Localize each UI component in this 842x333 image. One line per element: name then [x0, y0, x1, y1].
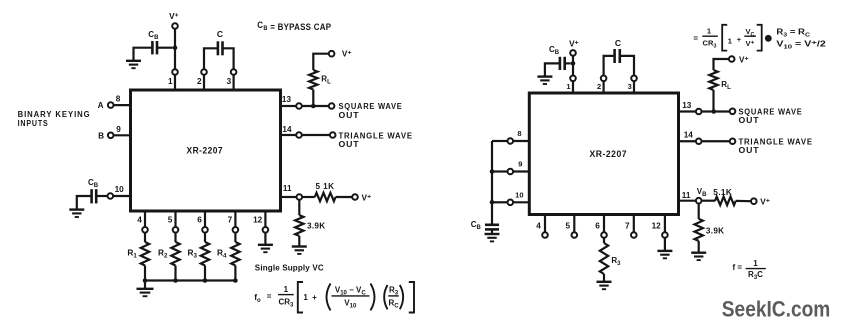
svg-text:V⁺: V⁺: [569, 40, 579, 49]
resistor R3 (right): [600, 243, 608, 274]
ground CB (left top): [126, 61, 141, 68]
pin 13 terminal (right): [696, 109, 702, 115]
svg-text:=: =: [267, 292, 272, 301]
wire R3 to bus: [204, 266, 206, 281]
svg-text:1: 1: [753, 259, 758, 268]
pin 6 terminal (left): [202, 227, 208, 233]
V+ terminal 5.1K (left): [352, 194, 358, 200]
wire pin11 to 3.9K (right): [698, 204, 700, 219]
wire pin1 to junction (left): [174, 48, 176, 70]
wire RL to pin13 (left): [312, 90, 314, 107]
wire RL to pin13 (right): [712, 90, 714, 112]
wire pin2 stub (left): [203, 75, 205, 90]
ground R3 (right): [597, 282, 612, 289]
svg-text:1: 1: [303, 293, 308, 302]
svg-text:1: 1: [707, 27, 711, 36]
svg-text:3.9K: 3.9K: [307, 222, 326, 231]
pin 14 terminal (right): [696, 138, 702, 144]
junction bus x205 (left): [203, 278, 208, 283]
svg-text:12: 12: [253, 215, 263, 224]
resistor R1: [141, 242, 149, 266]
V+ terminal top (left): [172, 23, 178, 29]
capacitor CB (left top): [152, 41, 157, 54]
svg-text:V⁺: V⁺: [362, 193, 372, 202]
junction CB/V+ (left): [173, 45, 178, 50]
wire pin8 (left): [114, 104, 131, 106]
square wave out terminal (right): [730, 109, 736, 115]
triangle wave out terminal (right): [730, 138, 736, 144]
svg-text:11: 11: [283, 184, 292, 193]
wire pin14 (right): [679, 140, 696, 142]
svg-text:V⁺: V⁺: [342, 50, 352, 59]
wire pin to R1 (left): [144, 233, 146, 242]
svg-text:+: +: [312, 293, 317, 302]
svg-text:10: 10: [115, 185, 125, 194]
svg-text:5.1K: 5.1K: [713, 188, 732, 197]
wire pin13 (right): [679, 110, 696, 112]
pin 7 terminal (left): [233, 227, 239, 233]
formula f = 1/R3C: [733, 259, 766, 281]
junction bus pin9 (right): [490, 169, 495, 174]
wire R1 to bus: [144, 266, 146, 281]
wire pin to R4 (left): [234, 233, 236, 242]
pin 9 terminal (right): [508, 169, 514, 175]
ground resistor bus (left): [137, 289, 154, 296]
wire junction to CB (left): [157, 47, 173, 49]
pin 4 terminal (right): [542, 232, 548, 238]
svg-text:14: 14: [282, 125, 292, 134]
svg-text:A: A: [98, 101, 104, 110]
svg-text:4: 4: [536, 221, 541, 230]
svg-text:INPUTS: INPUTS: [18, 118, 49, 128]
resistor RL (left): [309, 70, 317, 90]
svg-text:13: 13: [282, 95, 292, 104]
wire C to pin3 (right): [620, 56, 634, 76]
wire pin12 to ground (left): [264, 233, 266, 245]
svg-text:5: 5: [566, 221, 571, 230]
capacitor CB (left bottom): [92, 189, 97, 203]
wire pin1 to junction (right): [572, 63, 574, 75]
pin 11 terminal (left): [297, 194, 303, 200]
svg-text:14: 14: [684, 131, 694, 140]
junction bus x145 (left): [143, 278, 148, 283]
svg-text:+: +: [737, 35, 742, 44]
wire pin9 (left): [114, 134, 131, 136]
svg-text:9: 9: [116, 125, 121, 134]
pin 10 terminal (left): [108, 193, 114, 199]
wire junction to V+ (left): [174, 29, 176, 48]
ground 3.9K (right): [691, 253, 706, 260]
wire pin9 from bus (right): [492, 170, 508, 172]
wire pin9 (right): [513, 170, 529, 172]
wire pin7 stub (left): [234, 211, 236, 227]
wire pin13 (left): [281, 105, 297, 107]
svg-text:=: =: [693, 34, 698, 43]
svg-text:10: 10: [515, 190, 523, 199]
svg-text:11: 11: [682, 191, 691, 200]
pin 5 terminal (left): [173, 227, 179, 233]
ground pin12 (right): [657, 251, 672, 258]
wire 3.9K to ground (left): [298, 236, 300, 247]
wire pin6 stub (left): [204, 211, 206, 227]
wire pin10 (right): [513, 201, 529, 203]
resistor 5.1K (right): [715, 197, 736, 205]
wire keying bus (right): [491, 141, 493, 224]
svg-text:8: 8: [116, 95, 121, 104]
op-amp U1 XR-2207 (left IC body): [131, 90, 281, 211]
wire pin3 stub (right): [633, 81, 635, 93]
junction bus x175.5 (left): [173, 278, 178, 283]
V+ terminal top (right): [570, 50, 576, 56]
wire pin1 stub (right): [572, 81, 574, 93]
wire pin14 (left): [281, 134, 297, 136]
svg-text:OUT: OUT: [339, 110, 360, 120]
wire R3 to ground (right): [603, 274, 605, 282]
wire CB to ground (left bottom): [77, 196, 92, 210]
ground CB (left bottom): [69, 210, 84, 217]
wire pin5 stub (right): [573, 215, 575, 233]
wire pin4 stub (right): [544, 215, 546, 233]
svg-text:3: 3: [628, 82, 632, 91]
pin 11 terminal (right): [696, 198, 702, 204]
pin 14 terminal (left): [296, 132, 302, 138]
pin 3 terminal (left): [231, 69, 237, 75]
svg-text:5: 5: [168, 215, 173, 224]
svg-text:6: 6: [595, 221, 600, 230]
svg-text:8: 8: [517, 129, 521, 138]
pin 12 terminal (left): [263, 227, 269, 233]
svg-text:13: 13: [682, 101, 692, 110]
wire pin2 to C (right): [604, 56, 615, 76]
svg-text:V⁺: V⁺: [169, 12, 179, 21]
svg-text:f =: f =: [733, 263, 743, 272]
wire pin12 to ground (right): [664, 238, 666, 251]
wire pin to R3 (left): [204, 233, 206, 242]
wire pin1 stub (left): [174, 75, 176, 90]
capacitor CB (right top): [560, 57, 565, 70]
wire pin5 stub (left): [174, 211, 176, 227]
wire R4 to bus: [234, 266, 236, 281]
wire pin2 to C (left): [204, 48, 218, 69]
triangle wave out terminal (left): [330, 132, 336, 138]
svg-text:2: 2: [197, 77, 202, 86]
resistor R2: [171, 242, 179, 266]
svg-text:XR-2207: XR-2207: [187, 145, 224, 155]
svg-text:C: C: [615, 38, 621, 48]
svg-text:1: 1: [566, 82, 570, 91]
svg-text:OUT: OUT: [339, 139, 360, 149]
svg-text:B: B: [98, 131, 104, 140]
svg-text:Single Supply VC: Single Supply VC: [255, 263, 324, 272]
svg-text:OUT: OUT: [739, 145, 760, 155]
svg-text:1: 1: [284, 285, 289, 294]
formula = 1/CR3 [1 + VC/V+] @ R3=RC V10=V+/2: [693, 25, 826, 51]
ground pin12 (left): [258, 245, 273, 252]
wire pin10 from bus (right): [492, 201, 508, 203]
pin 2 terminal (left): [201, 69, 207, 75]
junction pin13/RL (right): [711, 109, 716, 114]
wire pin13 to out (right): [702, 110, 730, 112]
wire pin13 to out (left): [302, 105, 329, 107]
wire pin11 (right): [679, 200, 696, 202]
wire pin6 stub (right): [603, 215, 605, 233]
wire pin11 (left): [281, 196, 297, 198]
wire pin6 to R3 (right): [603, 238, 605, 243]
capacitor C (right): [615, 49, 620, 63]
svg-text:1: 1: [728, 37, 732, 46]
wire pin4 stub (left): [144, 211, 146, 227]
wire resistor bus (left): [145, 279, 235, 281]
wire pin14 to out (right): [702, 140, 730, 142]
svg-text:3: 3: [227, 77, 232, 86]
wire pin2 stub (right): [602, 81, 604, 93]
svg-text:3.9K: 3.9K: [706, 227, 725, 236]
svg-text:7: 7: [625, 221, 630, 230]
ground 3.9K (left): [292, 247, 307, 254]
V+ terminal RL (right): [729, 56, 735, 62]
wire pin12 stub (left): [264, 211, 266, 227]
wire pin8 from bus (right): [492, 140, 508, 142]
wire pin10 to CB (left): [96, 195, 107, 197]
square wave out terminal (left): [329, 103, 335, 109]
wire junction to CB (right): [565, 62, 571, 64]
wire pin7 stub (right): [633, 215, 635, 233]
svg-text:V⁺: V⁺: [739, 55, 749, 64]
junction bus x235.4 (left): [233, 278, 238, 283]
resistor 3.9K (left): [295, 215, 303, 236]
pin 13 terminal (left): [296, 103, 302, 109]
junction CB/V+ (right): [571, 61, 576, 66]
pin 1 terminal (right): [570, 76, 576, 82]
svg-text:C: C: [217, 29, 223, 39]
wire pin11 to 3.9K (left): [298, 200, 300, 215]
svg-text:4: 4: [137, 215, 142, 224]
capacitor C (left): [218, 41, 223, 55]
svg-text:12: 12: [652, 221, 662, 230]
svg-text:6: 6: [197, 215, 202, 224]
op-amp U2 XR-2207 (right IC body): [529, 93, 678, 215]
svg-text:CB = BYPASS CAP: CB = BYPASS CAP: [257, 20, 331, 32]
junction bus pin10 (right): [490, 200, 495, 205]
pin 8 terminal (left): [108, 102, 114, 108]
pin 1 terminal (left): [172, 69, 178, 75]
pin 2 terminal (right): [601, 76, 607, 82]
formula f0 = 1/CR3 [1 + ((V10-VC)/V10)(R3/RC)]: [254, 282, 414, 313]
pin 7 terminal (right): [631, 232, 637, 238]
svg-text:9: 9: [518, 160, 522, 169]
V+ terminal 5.1K (right): [751, 198, 757, 204]
junction pin13/RL (left): [311, 104, 316, 109]
capacitor CB (right bottom): [485, 225, 499, 230]
wire pin11 to 5.1K (right): [702, 200, 716, 202]
pin 12 terminal (right): [662, 232, 668, 238]
wire R2 to bus: [174, 266, 176, 281]
pin 3 terminal (right): [631, 76, 637, 82]
wire pin8 (right): [513, 140, 529, 142]
svg-text:7: 7: [228, 215, 233, 224]
wire junction to V+ (right): [572, 56, 574, 64]
svg-text:5 1K: 5 1K: [316, 182, 335, 191]
wire pin12 stub (right): [664, 215, 666, 233]
wire bus to ground (left): [144, 281, 146, 289]
wire 5.1K to V+ (right): [736, 200, 751, 203]
svg-text:V⁺: V⁺: [746, 39, 755, 48]
wire CB to ground (right): [545, 63, 560, 76]
wire V+ to RL (right): [714, 59, 729, 70]
svg-text:OUT: OUT: [739, 115, 760, 125]
pin 5 terminal (right): [572, 232, 578, 238]
ground CB (right top): [537, 77, 552, 84]
pin 10 terminal (right): [508, 200, 514, 206]
resistor 3.9K (right): [695, 219, 703, 241]
pin 9 terminal (left): [108, 133, 114, 139]
wire CB to ground (left): [134, 48, 153, 61]
pin 4 terminal (left): [142, 227, 148, 233]
wire CB to ground (right bottom): [491, 229, 493, 234]
wire pin14 to out (left): [302, 134, 330, 136]
svg-text:2: 2: [597, 82, 601, 91]
wire 3.9K to ground (right): [698, 241, 700, 253]
resistor RL (right): [709, 70, 717, 90]
V+ terminal RL (left): [329, 51, 335, 57]
wire pin to R2 (left): [174, 233, 176, 242]
resistor R4: [231, 242, 239, 266]
pin 8 terminal (right): [508, 138, 514, 144]
svg-text:V⁺: V⁺: [760, 197, 770, 206]
svg-text:XR-2207: XR-2207: [590, 149, 628, 159]
resistor R3: [201, 242, 209, 266]
svg-text:SeekIC.com: SeekIC.com: [722, 297, 831, 322]
wire 5.1K to V+ (left): [336, 196, 353, 198]
wire C to pin3 (left): [223, 48, 234, 69]
wire pin3 stub (left): [233, 75, 235, 90]
resistor 5.1K (left): [315, 193, 336, 201]
wire V+ to RL (left): [313, 54, 329, 70]
wire pin11 to 5.1K (left): [302, 196, 315, 198]
pin 6 terminal (right): [601, 232, 607, 238]
wire pin10 (left): [113, 195, 130, 197]
svg-text:1: 1: [168, 77, 173, 86]
ground CB (right bottom): [485, 234, 500, 241]
